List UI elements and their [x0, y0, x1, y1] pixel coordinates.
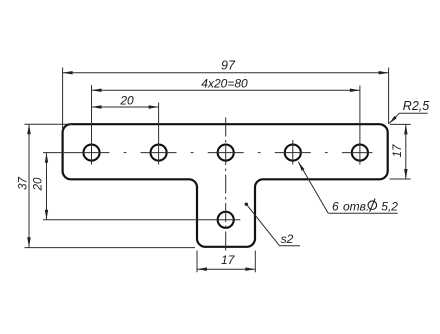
svg-text:17: 17	[392, 144, 404, 157]
svg-text:4x20=80: 4x20=80	[201, 77, 248, 91]
svg-text:37: 37	[17, 177, 29, 190]
svg-text:отв.: отв.	[343, 200, 369, 214]
svg-text:17: 17	[221, 253, 236, 267]
svg-text:20: 20	[33, 177, 45, 191]
svg-text:6: 6	[332, 200, 339, 214]
svg-text:5,2: 5,2	[381, 200, 398, 214]
svg-text:97: 97	[221, 59, 236, 73]
svg-text:20: 20	[119, 93, 134, 107]
svg-text:R2,5: R2,5	[403, 99, 429, 113]
svg-text:s2: s2	[281, 232, 294, 246]
